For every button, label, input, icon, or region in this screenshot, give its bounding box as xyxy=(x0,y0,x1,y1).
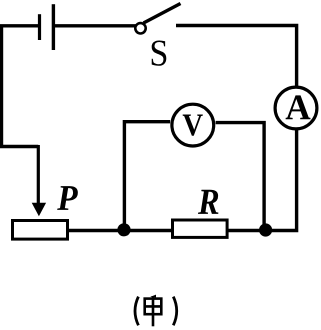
wire: left rail down from battery xyxy=(2,25,39,147)
label A inside ammeter xyxy=(286,95,311,119)
battery cell: short (negative) plate xyxy=(38,14,41,40)
ammeter A1 circle xyxy=(275,87,317,129)
wire: battery positive to switch pivot xyxy=(55,24,136,27)
battery cell: long (positive) plate xyxy=(52,4,55,50)
wire: rheostat right terminal to resistor R left end xyxy=(68,229,172,232)
voltmeter V1 circle xyxy=(172,104,214,146)
caption: character jia drawn as strokes xyxy=(144,295,162,327)
caption: closing parenthesis xyxy=(173,297,176,326)
wire: resistor R right end to right junction xyxy=(227,229,266,232)
wire: ammeter bottom to right junction xyxy=(263,129,297,231)
switch S lever (open) xyxy=(144,4,181,24)
label P (slider) xyxy=(57,186,78,210)
wire: switch fixed contact to top-right corner xyxy=(176,26,297,88)
resistor R body (rectangle) xyxy=(173,220,228,237)
label V inside voltmeter xyxy=(183,115,203,136)
caption: opening parenthesis xyxy=(135,297,138,326)
label S xyxy=(152,41,167,66)
junction node left (dot) xyxy=(117,223,130,236)
wire: voltmeter left terminal to left junction xyxy=(124,122,170,230)
junction node right (dot) xyxy=(259,223,272,236)
slider arrow shaft of rheostat xyxy=(37,145,40,205)
wire: left rail to battery negative plate xyxy=(0,24,38,27)
label R xyxy=(198,190,218,214)
rheostat body (rectangle) xyxy=(13,221,68,240)
wire: right junction up and to voltmeter right terminal xyxy=(216,123,265,230)
slider arrow head (points down onto rheostat) xyxy=(32,203,46,216)
switch S pivot circle xyxy=(135,23,145,33)
